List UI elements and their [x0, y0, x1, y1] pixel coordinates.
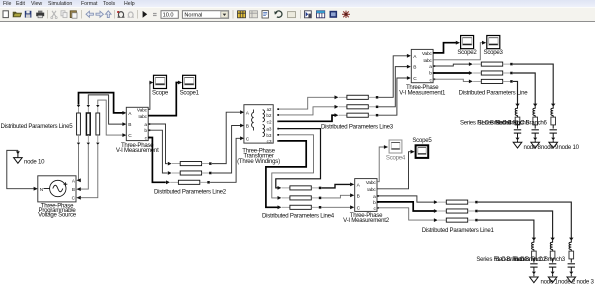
wire L5-A top to measurement M1 input A: [79, 93, 123, 113]
svg-text:node 8: node 8: [524, 144, 542, 151]
svg-text:V-I Measurement2: V-I Measurement2: [343, 217, 390, 224]
distributed line L4 phase A icon: [278, 186, 322, 190]
separator: [47, 10, 49, 19]
toolbar icon: new model: [3, 11, 8, 18]
toolbar icon: folder (disabled): [288, 12, 296, 18]
toolbar icon: omega2 (disabled): [128, 12, 134, 17]
svg-text:c3: c3: [267, 139, 272, 144]
wire ground G1 to source N: [7, 150, 34, 188]
distributed line L5 phase B (vertical icon): [86, 105, 90, 145]
separator: [300, 10, 302, 19]
ground G3: [531, 142, 540, 148]
wire M2 c to line L6 phase C: [433, 79, 469, 81]
toolbar icon: omega1: [118, 12, 125, 18]
wire M2 Iabc to Scope3: [433, 43, 482, 60]
svg-text:node 9: node 9: [541, 144, 559, 151]
toolbar icon: workspace table: [317, 11, 325, 18]
wire L6-B to branch B5: [513, 73, 535, 104]
toolbar icon: mechanics explorer: [342, 11, 350, 18]
wire L6-C to branch B4: [513, 81, 518, 104]
branch B5: Series RLC Branch5: [532, 104, 539, 143]
svg-text:B: B: [72, 187, 75, 192]
svg-text:Voltage Source: Voltage Source: [38, 211, 77, 218]
svg-text:Scope2: Scope2: [457, 49, 477, 56]
wire T1 a2 to line L3 phase A: [279, 97, 335, 109]
svg-text:node 3: node 3: [577, 279, 595, 286]
block Scope: [154, 75, 167, 88]
svg-text:node 10: node 10: [559, 144, 580, 151]
ground G1 (node 10): [14, 150, 23, 163]
svg-text:a2: a2: [267, 107, 272, 112]
wire M1 Vabc to Scope: [148, 83, 150, 110]
wire M1 c to line L2 phase C: [148, 138, 166, 183]
toolbar: [0, 7, 595, 22]
wire M3 c to line L7 phase C: [377, 208, 434, 220]
block M3: Three-Phase V-I Measurement2: [355, 179, 379, 212]
distributed line L7 phase A icon: [434, 200, 478, 204]
wire L5-C top to measurement M1 input C: [98, 100, 123, 135]
svg-text:node 1: node 1: [541, 279, 559, 286]
block M2: Three-Phase V-I Measurement1: [411, 49, 435, 83]
svg-text:B: B: [246, 124, 249, 130]
distributed line L3 phase A icon: [335, 95, 379, 99]
wire L2-A to transformer T1 input A: [212, 112, 241, 163]
separator: [114, 10, 116, 19]
svg-text:B: B: [413, 65, 416, 71]
wire M1 a to line L2 phase A: [148, 124, 167, 164]
svg-text:Vabc: Vabc: [137, 108, 148, 114]
toolbar icon: build: [305, 11, 312, 18]
block Scope4: [389, 140, 402, 153]
svg-text:B: B: [128, 122, 131, 128]
block Scope5: [416, 145, 429, 158]
wire T1 a3 loop to line L4 phase A: [276, 129, 321, 188]
toolbar field: sim stop time: [161, 11, 178, 19]
wire M2 Vabc to Scope2: [433, 43, 456, 53]
toolbar icon: run (play): [143, 11, 148, 18]
wire L7-C to branch B1: [478, 220, 534, 238]
toolbar icon: up arrow: [106, 11, 112, 18]
wire L4-B to measurement M3 input B: [322, 195, 351, 198]
wire L7-A to branch B3: [478, 202, 571, 238]
distributed line L6 phase C icon: [469, 79, 513, 83]
svg-text:c2: c2: [267, 119, 272, 124]
wire L5-B bottom to source B: [81, 145, 89, 189]
separator: [137, 10, 139, 19]
distributed line L7 phase B icon: [434, 209, 478, 213]
distributed line L4 phase C icon: [278, 205, 322, 209]
toolbar icon: undo arrow: [86, 11, 93, 17]
distributed line L3 phase C icon: [335, 113, 379, 117]
toolbar icon: save: [25, 11, 32, 18]
wire L5-B top to measurement M1 input B: [88, 95, 122, 124]
svg-text:Iabc: Iabc: [138, 114, 147, 120]
svg-text:b3: b3: [266, 133, 272, 138]
svg-text:Scope: Scope: [152, 89, 169, 96]
distributed line L4 phase B icon: [278, 196, 322, 200]
toolbar icon: copy (disabled): [61, 11, 65, 16]
branch B6: Series RLC Branch6: [550, 104, 557, 143]
wire L7-B to branch B2: [478, 211, 553, 238]
svg-text:node 2: node 2: [558, 279, 576, 286]
window menu bar: [0, 0, 595, 7]
block Scope1: [183, 75, 196, 88]
wire M1 b to line L2 phase B: [148, 130, 167, 173]
block Scope2: [461, 36, 474, 49]
wire M1 Iabc to Scope1: [148, 83, 178, 116]
wire L4-C to measurement M3 input C: [322, 206, 351, 208]
toolbar icon: open: [13, 12, 21, 17]
wire M2 b to line L6 phase B: [433, 72, 469, 74]
toolbar icon: redo arrow: [96, 11, 103, 17]
branch B2: Series RLC Branch2: [549, 238, 556, 277]
wire L3-B to measurement M2 input B: [379, 67, 408, 107]
distributed line L2 phase C icon: [166, 180, 210, 184]
distributed line L3 phase B icon: [335, 105, 379, 109]
svg-text:(Three Windings): (Three Windings): [237, 158, 280, 165]
svg-text:Iabc: Iabc: [367, 187, 376, 193]
distributed line L7 phase C icon: [434, 218, 478, 222]
ground G2: [513, 142, 522, 148]
wire L4-A to measurement M3 input A: [322, 184, 351, 188]
distributed line L6 phase B icon: [469, 71, 513, 75]
wire T1 c2 to line L3 phase C: [279, 115, 335, 121]
separator: [232, 10, 234, 19]
distributed line L6 phase A icon: [469, 62, 513, 66]
ground G4: [549, 142, 558, 148]
ground G5: [530, 277, 539, 283]
toolbar icon: print: [36, 13, 44, 17]
svg-text:a3: a3: [266, 127, 272, 132]
svg-text:Scope3: Scope3: [484, 49, 504, 56]
voltage source U1: Three-Phase Programmable Voltage Source: [38, 176, 76, 202]
wire L3-C to measurement M2 input C: [379, 78, 408, 115]
wire L2-B to transformer T1 input B: [212, 126, 241, 174]
svg-text:Vabc: Vabc: [366, 180, 377, 186]
wire M3 Iabc to Scope5: [377, 152, 411, 189]
branch B1: Series RLC Branch1: [530, 238, 537, 277]
svg-text:Series RLC Branch6: Series RLC Branch6: [496, 120, 548, 127]
toolbar icon: stop (disabled): [153, 13, 157, 14]
svg-text:B: B: [357, 194, 360, 200]
ground G7: [567, 277, 576, 283]
branch B3: Series RLC Branch3: [568, 238, 575, 277]
svg-text:Scope4: Scope4: [386, 154, 406, 161]
wire M2 a to line L6 phase A: [433, 64, 469, 66]
svg-text:Scope1: Scope1: [180, 89, 200, 96]
block Scope3: [487, 36, 500, 49]
svg-text:Vabc: Vabc: [422, 51, 433, 57]
svg-text:V-I Measurement1: V-I Measurement1: [399, 89, 446, 96]
svg-text:Scope5: Scope5: [412, 137, 432, 144]
distributed line L5 phase C (vertical icon): [96, 105, 100, 145]
wire T1 b3 loop to line L4 phase B: [272, 135, 314, 198]
distributed line L2 phase B icon: [168, 171, 212, 175]
svg-text:Distributed Parameters Line3: Distributed Parameters Line3: [321, 124, 394, 131]
ground G6: [548, 277, 557, 283]
svg-text:Series RLC Branch3: Series RLC Branch3: [514, 256, 566, 263]
toolbar icon: refresh: [275, 11, 282, 17]
wire T1 b2 to line L3 phase B: [279, 107, 335, 115]
wire L6-A to branch B6: [513, 64, 553, 104]
distributed line L2 phase A icon: [168, 162, 212, 166]
distributed line L5 phase A (vertical icon): [77, 105, 81, 145]
wire M3 b to line L7 phase B: [377, 202, 434, 211]
svg-text:Iabc: Iabc: [423, 58, 432, 64]
svg-text:node 10: node 10: [24, 158, 45, 165]
toolbar icon: cut (disabled): [52, 11, 56, 17]
separator: [81, 10, 83, 19]
wire L5-C bottom to source C: [81, 145, 98, 198]
svg-text:Distributed Parameters Line5: Distributed Parameters Line5: [1, 123, 74, 130]
wire M3 a to line L7 phase A: [377, 196, 434, 202]
wire L2-C to transformer T1 input C: [210, 138, 240, 182]
svg-text:Distributed Parameters Line1: Distributed Parameters Line1: [422, 227, 495, 234]
block M1: Three-Phase V-I Measurement: [126, 107, 150, 141]
wire L5-A bottom to source A: [78, 145, 80, 180]
toolbar icon: simulink project: [330, 11, 338, 18]
wire T1 c3 loop to line L4 phase C: [266, 141, 306, 207]
block T1: Three-Phase Transformer (Three Windings): [244, 105, 279, 144]
wire L3-A to measurement M2 input A: [379, 56, 408, 98]
wire M3 Vabc to Scope4: [377, 147, 384, 182]
svg-text:Distributed Parameters Line: Distributed Parameters Line: [459, 90, 529, 97]
toolbar icon: model browser (disabled): [250, 11, 258, 18]
toolbar dropdown: simulation mode: [182, 11, 228, 19]
toolbar icon: paste: [70, 11, 76, 18]
toolbar icon: debug page: [262, 11, 268, 18]
toolbar icon: library browser: [238, 11, 246, 18]
svg-text:Distributed Parameters Line4: Distributed Parameters Line4: [262, 213, 335, 220]
svg-text:Distributed Parameters Line2: Distributed Parameters Line2: [154, 189, 227, 196]
branch B4: Series RLC Branch4: [514, 104, 521, 143]
svg-text:b2: b2: [266, 113, 272, 118]
